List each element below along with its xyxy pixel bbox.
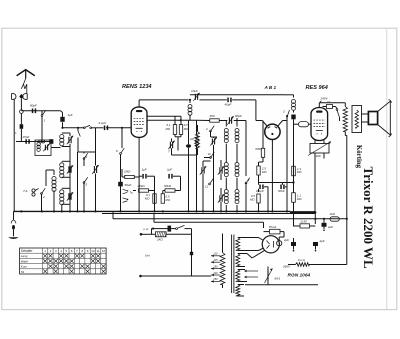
junction sq — [190, 252, 193, 255]
IF coil A1 — [224, 129, 228, 143]
wire — [154, 204, 156, 211]
wire — [83, 152, 85, 154]
resistor 0,5MOhm det — [257, 194, 260, 203]
fuse bulb — [20, 110, 24, 114]
svg-text:7MΩ: 7MΩ — [255, 147, 262, 151]
tap 110 — [211, 253, 220, 257]
junction — [121, 127, 123, 129]
heater line — [113, 211, 347, 218]
svg-text:0,1μF: 0,1μF — [99, 121, 107, 125]
switch 5 — [83, 177, 88, 186]
wire — [247, 238, 264, 251]
svg-text:2: 2 — [42, 195, 45, 199]
wire y183 — [259, 182, 294, 184]
junction — [61, 127, 63, 129]
wire grid — [106, 127, 131, 129]
antenna socket — [12, 94, 17, 100]
wire — [171, 228, 175, 230]
trimmer 10pF — [193, 93, 199, 101]
wire — [147, 175, 155, 177]
junction — [314, 218, 316, 220]
wire — [197, 119, 247, 121]
IF coil B1 — [235, 129, 239, 143]
junction — [314, 211, 316, 213]
heater rheostat — [265, 269, 273, 284]
trimmer C4 — [92, 165, 98, 174]
wire y120 — [147, 119, 197, 121]
contact 7b — [123, 198, 129, 203]
wire — [189, 120, 198, 211]
wavetrap trimmer — [43, 144, 49, 152]
mains dot — [139, 275, 142, 278]
primary zigzag — [220, 253, 225, 285]
svg-text:220: 220 — [212, 272, 218, 275]
wire — [61, 111, 63, 128]
capacitor 0,1uF det — [259, 185, 263, 190]
capacitor 2uF c — [291, 238, 296, 252]
wire — [210, 276, 212, 281]
wire — [172, 139, 197, 156]
tap 150 — [211, 265, 220, 269]
switch S — [336, 109, 339, 121]
resistor 1MOhm v — [195, 135, 199, 146]
wire — [16, 141, 53, 143]
svg-text:2μF: 2μF — [327, 225, 333, 229]
capacitor out black — [186, 144, 191, 147]
junction — [189, 99, 191, 101]
svg-text:2150: 2150 — [300, 220, 308, 224]
trimmer C7 — [168, 141, 174, 150]
svg-text:190: 190 — [316, 154, 321, 158]
junction — [76, 210, 78, 212]
mains terminal — [140, 233, 143, 236]
wire — [203, 160, 221, 211]
wire — [211, 137, 218, 152]
wire — [78, 151, 96, 153]
wire — [346, 219, 348, 265]
junction — [346, 264, 348, 266]
capacitor 5000 — [280, 185, 284, 190]
svg-text:Körting: Körting — [355, 145, 362, 169]
secondary winding 2 — [236, 254, 240, 267]
svg-text:125: 125 — [213, 259, 218, 262]
switch 2 — [41, 188, 46, 211]
resistor 7MOhm — [261, 148, 264, 157]
wire — [175, 116, 181, 150]
wire — [259, 162, 264, 183]
wire — [213, 152, 215, 211]
socket plug pin — [19, 94, 23, 99]
wire — [294, 123, 312, 125]
wire — [133, 176, 155, 204]
junction — [267, 210, 269, 212]
wire — [162, 191, 164, 194]
junction — [153, 210, 155, 212]
wire — [286, 121, 288, 212]
switch 4 — [83, 153, 88, 162]
wire — [345, 132, 347, 220]
capacitor 50uF — [118, 182, 123, 187]
resistor 1kOhm — [330, 217, 339, 221]
wire — [259, 183, 288, 212]
wire — [138, 138, 140, 212]
lightning arrester — [21, 79, 27, 94]
switch 6 — [120, 128, 125, 155]
wire — [120, 184, 122, 211]
IF coil B2 — [235, 163, 239, 177]
svg-text:50μF: 50μF — [125, 183, 132, 187]
junction — [69, 210, 71, 212]
wire — [189, 100, 191, 120]
svg-text:Trixor R 2200 WL: Trixor R 2200 WL — [361, 167, 376, 270]
wire — [120, 155, 122, 176]
switch stub — [78, 128, 80, 152]
trimmer C2 — [67, 165, 73, 174]
wire — [196, 120, 198, 211]
trimmer C3 — [67, 192, 73, 201]
wire — [245, 267, 318, 285]
junction — [77, 127, 79, 129]
junction — [202, 210, 204, 212]
junction — [61, 210, 63, 212]
svg-text:2μF: 2μF — [283, 238, 289, 242]
svg-text:260V: 260V — [282, 265, 291, 269]
svg-text:Lang: Lang — [21, 254, 28, 258]
svg-text:Kurz: Kurz — [21, 265, 28, 269]
heater arrow b — [244, 276, 258, 279]
svg-text:110: 110 — [213, 253, 218, 256]
antenna — [17, 70, 35, 79]
bus line 2 — [102, 213, 315, 215]
tap 220 — [211, 272, 220, 276]
capacitor pilot — [168, 226, 172, 232]
svg-text:Mittel: Mittel — [21, 259, 29, 263]
resistor 0,5 d — [179, 125, 182, 135]
svg-text:11: 11 — [205, 185, 208, 189]
svg-text:RENS 1234: RENS 1234 — [122, 84, 152, 90]
trimmer t12 — [218, 194, 224, 203]
capacitor 25pF — [25, 139, 29, 144]
junction — [138, 210, 140, 212]
wire — [121, 169, 140, 184]
wire — [232, 100, 256, 121]
switch 11 — [209, 179, 214, 185]
output transformer — [343, 103, 362, 134]
wire y95 — [190, 94, 285, 96]
contact 7a — [123, 189, 129, 194]
junction — [271, 210, 273, 212]
wire — [63, 127, 104, 129]
wire — [139, 100, 189, 107]
trimmer 80pF — [227, 116, 233, 125]
wire — [336, 107, 338, 109]
wire — [192, 234, 223, 289]
tap 250 — [211, 278, 220, 282]
wire — [21, 110, 42, 112]
svg-text:Fu ¼: Fu ¼ — [298, 258, 305, 262]
resistor 2,5MOhm — [257, 166, 260, 175]
svg-text:11: 11 — [97, 249, 100, 253]
wire — [315, 140, 324, 213]
resistor 0,1MOhm — [153, 194, 156, 204]
junction — [180, 119, 182, 121]
wire — [256, 121, 287, 127]
fuse 75mA — [264, 229, 285, 237]
junction — [236, 210, 238, 212]
capacitor 40pF — [227, 98, 231, 103]
secondary winding 1 — [236, 238, 240, 251]
wire — [61, 204, 63, 211]
svg-text:RES 964: RES 964 — [306, 85, 329, 91]
junction — [257, 210, 259, 212]
coil L4 — [60, 190, 64, 205]
wavetrap coil — [37, 142, 40, 151]
switch 1 — [41, 110, 46, 122]
resistor 1,3MOhm — [292, 166, 296, 176]
junction — [162, 210, 164, 212]
earth socket — [23, 94, 28, 100]
wire — [77, 152, 79, 211]
svg-text:12: 12 — [102, 249, 106, 253]
svg-text:1μF: 1μF — [142, 168, 147, 172]
trimmer t11 — [218, 166, 224, 175]
resistor 1,1MOhm — [292, 193, 296, 203]
svg-text:6A/1: 6A/1 — [275, 277, 281, 281]
svg-text:Schalter: Schalter — [21, 249, 34, 253]
junction — [119, 210, 121, 212]
svg-text:10pF: 10pF — [191, 89, 198, 93]
wire — [95, 128, 97, 212]
svg-text:A B 1: A B 1 — [264, 85, 277, 90]
junction — [346, 218, 348, 220]
pilot arrow — [151, 227, 154, 230]
resistor 1MOhm — [125, 175, 135, 178]
wire — [285, 95, 294, 113]
grid resistor 50 — [299, 122, 309, 127]
IF coil B3 — [235, 190, 239, 204]
wire — [42, 110, 61, 112]
wire — [294, 250, 316, 265]
switch 10 — [204, 152, 214, 158]
wire — [279, 246, 347, 265]
svg-text:24Ω: 24Ω — [156, 238, 163, 242]
wire — [262, 121, 264, 163]
switch 9 — [245, 121, 250, 212]
wire — [314, 212, 316, 224]
bus ground line — [14, 210, 291, 212]
junction — [41, 210, 43, 212]
junction — [245, 210, 247, 212]
coil L3 osc — [52, 177, 56, 192]
coil L1 — [60, 135, 64, 146]
junction — [225, 210, 227, 212]
svg-text:1kΩ: 1kΩ — [330, 212, 336, 216]
fuse Fu — [296, 258, 310, 266]
junction — [187, 210, 189, 212]
wire — [141, 275, 212, 277]
wire — [279, 237, 284, 241]
wire — [13, 99, 15, 211]
svg-text:150: 150 — [213, 265, 218, 268]
tube AB1 — [265, 124, 280, 139]
wire — [258, 203, 260, 211]
wire — [163, 176, 181, 190]
resistor 450 — [210, 119, 220, 122]
choke Dr — [188, 105, 192, 116]
wire — [46, 170, 54, 186]
wire grid2 — [147, 115, 181, 117]
IF coil A3 — [224, 190, 228, 204]
wire — [247, 250, 265, 258]
grid stopper — [323, 105, 336, 109]
wire — [362, 114, 369, 122]
switch 2b — [210, 126, 215, 137]
wire — [20, 142, 22, 212]
capacitor grid black — [291, 115, 295, 120]
speaker — [368, 99, 391, 137]
svg-text:1M: 1M — [190, 137, 195, 141]
secondary winding 3 — [236, 270, 240, 282]
svg-text:L.A.: L.A. — [144, 227, 150, 231]
trimmer det — [210, 138, 216, 146]
svg-text:10: 10 — [91, 249, 95, 253]
resistor 0,5MOhm — [161, 194, 164, 204]
secondary winding 4 — [236, 285, 240, 297]
wire — [20, 129, 22, 142]
svg-text:80pF: 80pF — [30, 104, 37, 108]
tube RGN1064 — [262, 236, 282, 253]
svg-text:450: 450 — [210, 114, 215, 118]
resistor 2150 — [294, 220, 316, 228]
wire — [53, 190, 55, 211]
capacitor 1uF grid — [60, 117, 64, 122]
wavetrap box — [35, 140, 51, 156]
bus thick — [290, 211, 315, 214]
wire — [62, 161, 70, 177]
trimmer t10 — [200, 166, 206, 175]
capacitor input — [49, 139, 53, 144]
svg-text:TA: TA — [21, 270, 25, 274]
wire — [238, 238, 247, 297]
svg-text:75mA: 75mA — [269, 225, 277, 229]
series contact 7 — [83, 125, 91, 129]
junction — [323, 218, 325, 220]
coil L2 — [60, 163, 64, 178]
capacitor 0.1uF — [104, 126, 108, 131]
capacitor 2uF b — [313, 239, 318, 252]
switch pilot — [176, 225, 192, 229]
svg-text:1μF: 1μF — [68, 113, 73, 117]
svg-text:7a: 7a — [130, 191, 134, 195]
wire — [62, 188, 70, 204]
wire — [83, 162, 85, 211]
junction — [53, 210, 55, 212]
svg-text:1μF: 1μF — [167, 168, 172, 172]
wire — [191, 229, 193, 276]
ground symbol — [8, 211, 19, 239]
heater arrow a — [244, 270, 258, 273]
wire — [226, 150, 237, 211]
switch 3 — [286, 110, 289, 121]
wire — [41, 122, 43, 142]
cathode rheostat — [308, 142, 331, 156]
svg-text:40pF: 40pF — [225, 103, 232, 107]
coupling loop — [39, 140, 45, 143]
svg-text:T.A.: T.A. — [23, 189, 28, 193]
svg-text:2μF: 2μF — [319, 239, 325, 243]
wire y100 — [200, 99, 227, 101]
choke out — [292, 100, 296, 111]
svg-text:50kΩ: 50kΩ — [164, 184, 172, 188]
zigzag res mid — [196, 132, 200, 149]
wire — [294, 226, 316, 239]
svg-text:80pF: 80pF — [235, 114, 242, 118]
capacitor 1uF b — [168, 174, 172, 179]
line y222 — [154, 214, 264, 229]
svg-text:25pF: 25pF — [22, 135, 30, 139]
wire — [293, 119, 295, 182]
svg-text:0,1μF: 0,1μF — [256, 189, 264, 193]
junction — [83, 210, 85, 212]
svg-text:240V: 240V — [320, 97, 329, 101]
junction — [195, 210, 197, 212]
wire — [62, 133, 70, 147]
wire — [141, 229, 192, 235]
label 240V — [319, 97, 328, 103]
capacitor 1uF a — [142, 174, 146, 179]
wire — [51, 147, 61, 149]
junction — [220, 210, 222, 212]
tube RENS1234 — [131, 107, 147, 138]
svg-text:RGN 1064: RGN 1064 — [288, 273, 311, 279]
band switch table — [20, 248, 107, 274]
pickup jack — [32, 189, 39, 197]
IF coil A2 — [224, 163, 228, 177]
capacitor 2uF a — [322, 219, 327, 231]
resistor 50kOhm — [165, 189, 175, 192]
svg-text:1MΩ: 1MΩ — [124, 170, 131, 174]
svg-text:10: 10 — [208, 152, 212, 156]
wire — [69, 147, 71, 212]
wire — [20, 99, 22, 110]
tap 125 — [211, 259, 220, 263]
capacitor 80pF — [32, 109, 36, 114]
ballast box 24 — [156, 232, 167, 237]
wire — [20, 113, 22, 124]
wire — [293, 183, 295, 227]
resistor 25kOhm — [139, 189, 149, 192]
svg-text:2: 2 — [205, 127, 208, 131]
junction — [212, 210, 214, 212]
wire — [271, 140, 273, 212]
transformer core — [232, 235, 234, 294]
resistor 0,1MOhm c — [173, 125, 176, 135]
wire — [226, 118, 237, 150]
trimmer C1 — [67, 136, 73, 145]
junction — [286, 210, 288, 212]
junction — [94, 210, 96, 212]
wire — [154, 228, 168, 230]
capacitor C ant — [20, 124, 24, 129]
svg-text:250: 250 — [212, 278, 218, 281]
wire — [319, 103, 343, 108]
svg-text:50nF: 50nF — [278, 189, 285, 193]
svg-text:25kΩ: 25kΩ — [137, 184, 146, 188]
junction — [292, 181, 294, 183]
junction — [20, 210, 22, 212]
tube RES964 — [311, 108, 328, 141]
